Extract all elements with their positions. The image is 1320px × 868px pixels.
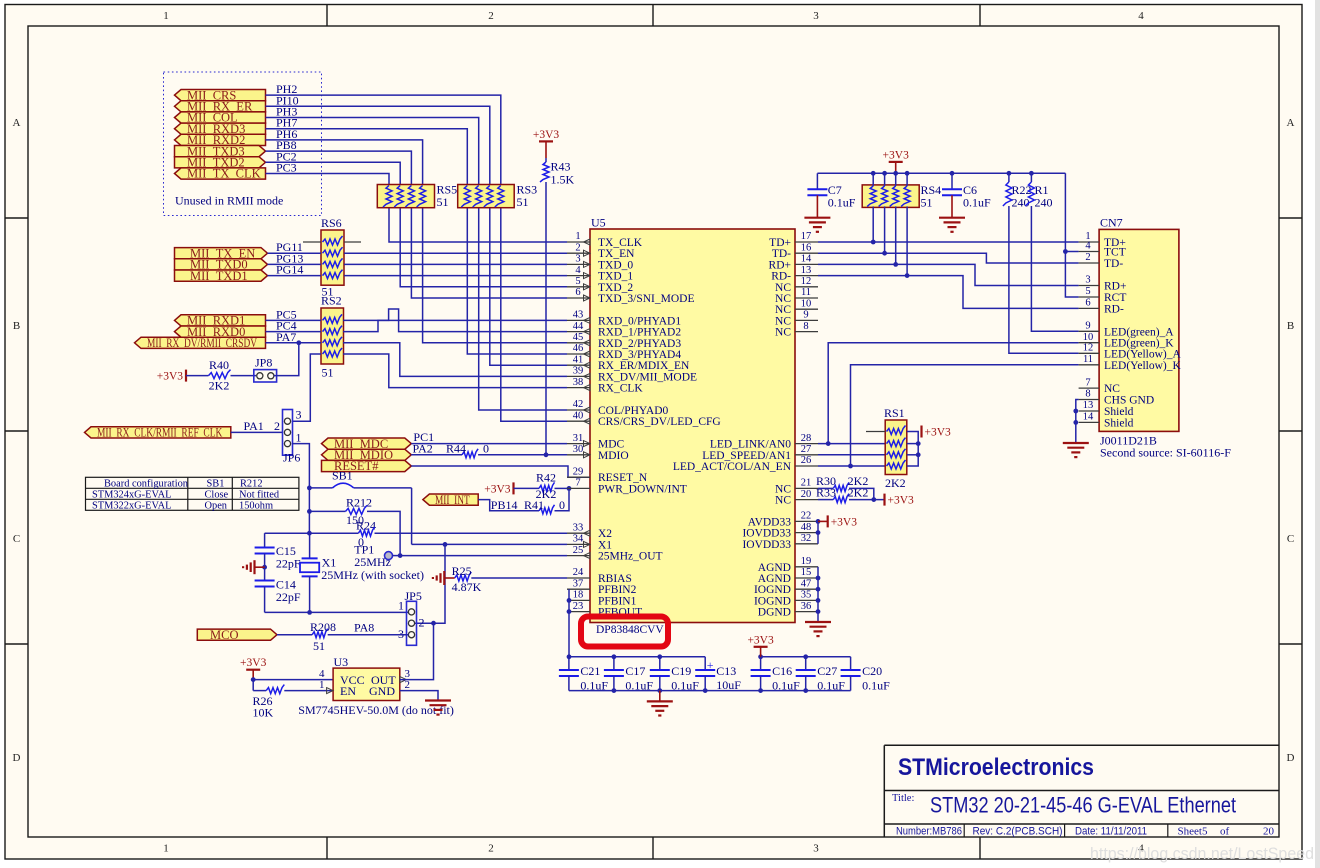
CN7 pin 11 LED(Yellow)_K	[1079, 364, 1100, 366]
pin 20 NC	[795, 499, 818, 501]
wire VCC	[253, 679, 333, 681]
wire RS1 common to +3V3	[907, 432, 918, 467]
port flag MII_TXD3	[175, 146, 266, 157]
wire RXD_0 (RS2 to pin 43)	[343, 320, 389, 331]
port flag RESET#	[322, 460, 412, 471]
svg-text:B: B	[13, 320, 20, 332]
svg-text:B: B	[1287, 320, 1294, 332]
svg-text:RD+: RD+	[1104, 281, 1126, 293]
wire cap bank top bus (left)	[569, 656, 705, 658]
port flag MII_MDC	[322, 438, 412, 449]
svg-text:JP8: JP8	[255, 356, 272, 370]
junction TP1	[398, 553, 403, 558]
svg-text:CRS/CRS_DV/LED_CFG: CRS/CRS_DV/LED_CFG	[598, 416, 721, 428]
pin 29 RESET_N	[567, 476, 590, 478]
svg-text:TD+: TD+	[769, 237, 791, 249]
svg-text:47: 47	[801, 578, 812, 589]
resistor R42 2K2	[514, 487, 540, 489]
svg-text:1: 1	[319, 679, 325, 691]
svg-text:1: 1	[296, 431, 302, 445]
svg-text:Number:MB786: Number:MB786	[896, 826, 962, 838]
svg-text:MDC: MDC	[598, 439, 625, 451]
title block	[884, 744, 1279, 746]
power +3V3 (RS1)	[920, 426, 922, 438]
svg-text:DGND: DGND	[758, 607, 791, 619]
wire MII_INT/PB14	[478, 500, 539, 511]
svg-text:9: 9	[1085, 321, 1090, 332]
svg-text:11: 11	[1083, 354, 1093, 365]
CN7 pin 1 TD+	[1079, 241, 1100, 243]
pin 44 RXD_1/PHYAD2	[567, 331, 590, 333]
wire PA7	[266, 342, 322, 344]
RS1 spare row stub	[866, 431, 885, 433]
svg-text:Unused in RMII mode: Unused in RMII mode	[175, 194, 283, 208]
wire AGND/IOGND/DGND to ground	[817, 567, 819, 622]
wire net PH7/RXD3	[266, 129, 568, 354]
svg-text:D: D	[13, 752, 21, 764]
wire cap bank bottom bus	[569, 690, 851, 692]
pin 12 NC	[795, 286, 818, 288]
header JP6	[283, 410, 293, 456]
svg-text:25: 25	[573, 545, 584, 556]
pin 11 NC	[795, 297, 818, 299]
wires RS4 to TD/RD lines	[872, 206, 874, 242]
svg-text:0.1uF: 0.1uF	[580, 679, 608, 693]
svg-text:17: 17	[801, 231, 812, 242]
svg-text:2: 2	[575, 242, 580, 253]
svg-text:1: 1	[575, 231, 580, 242]
svg-text:TXD_3/SNI_MODE: TXD_3/SNI_MODE	[598, 293, 694, 305]
wire RESET# to pin 29	[411, 466, 590, 477]
svg-text:TD-: TD-	[772, 248, 791, 260]
svg-text:NC: NC	[775, 495, 791, 507]
svg-text:PA8: PA8	[354, 621, 374, 635]
connector CN7	[1099, 229, 1179, 431]
capacitor C15 22pF	[264, 533, 266, 547]
svg-text:46: 46	[573, 343, 584, 354]
svg-text:PA2: PA2	[413, 441, 433, 455]
svg-text:NC: NC	[775, 304, 791, 316]
svg-text:Sheet5: Sheet5	[1178, 826, 1208, 838]
wire net PC3/TX_CLK	[266, 174, 568, 243]
svg-text:+3V3: +3V3	[240, 657, 267, 669]
header JP5	[407, 601, 417, 645]
svg-text:SB1: SB1	[332, 469, 353, 483]
svg-text:D: D	[1287, 752, 1295, 764]
svg-text:STM32 20-21-45-46 G-EVAL Ether: STM32 20-21-45-46 G-EVAL Ethernet	[930, 793, 1236, 818]
svg-text:2: 2	[1085, 252, 1090, 263]
svg-text:3: 3	[405, 668, 411, 680]
pin 8 NC	[795, 331, 818, 333]
svg-text:Close: Close	[205, 489, 229, 500]
svg-text:2K2: 2K2	[209, 379, 230, 393]
svg-text:15: 15	[801, 567, 812, 578]
svg-text:8: 8	[1085, 389, 1090, 400]
power +3V3 (R40)	[185, 370, 187, 382]
right edge gray strip	[1315, 0, 1320, 868]
svg-text:13: 13	[1083, 400, 1094, 411]
svg-text:19: 19	[801, 556, 812, 567]
svg-text:CN7: CN7	[1100, 216, 1123, 230]
capacitor C14 22pF	[255, 580, 275, 582]
svg-text:44: 44	[573, 321, 584, 332]
svg-text:24: 24	[573, 567, 584, 578]
svg-text:3: 3	[575, 254, 580, 265]
CN7 pin 3 RD+	[1079, 285, 1100, 287]
wire PC4	[266, 331, 322, 333]
wire LED(Yellow)_K	[851, 365, 1079, 466]
wire LED(green)_K	[828, 343, 1078, 444]
wire RX_CLK branch (RS2 row4 to pin 38)	[343, 354, 567, 388]
svg-text:8: 8	[803, 321, 808, 332]
svg-text:MII_INT: MII_INT	[435, 493, 470, 507]
svg-text:https://blog.csdn.net/LostSpee: https://blog.csdn.net/LostSpeed	[1090, 845, 1314, 863]
resistor network RS4	[862, 185, 919, 208]
wire R22 to LED(Yellow)_A	[1009, 206, 1079, 353]
wire R212 right to TP1/25MHz net	[367, 511, 400, 555]
svg-text:39: 39	[573, 366, 584, 377]
svg-text:PFBIN2: PFBIN2	[598, 584, 637, 596]
svg-text:43: 43	[573, 310, 584, 321]
pin 24 RBIAS	[567, 577, 590, 579]
pin 46 RXD_3/PHYAD4	[567, 353, 590, 355]
power +3V3 (R30/R33)	[883, 494, 885, 506]
CN7 pin 8 CHS GND	[1079, 399, 1100, 401]
wire R44 to pin 30	[478, 454, 567, 456]
resistor R22 240	[1008, 173, 1010, 182]
wire TD-	[818, 253, 1079, 263]
svg-text:C: C	[1287, 533, 1294, 545]
CN7 pin 13 Shield	[1079, 410, 1100, 412]
svg-text:LED(green)_A: LED(green)_A	[1104, 326, 1174, 338]
resistor R25 4.87K	[455, 572, 472, 581]
svg-text:25MHz_OUT: 25MHz_OUT	[598, 551, 663, 563]
svg-text:Title:: Title:	[892, 793, 914, 804]
svg-text:25MHz (with socket): 25MHz (with socket)	[321, 568, 424, 582]
CN7 pin 6 RD-	[1079, 307, 1100, 309]
pin 32 IOVDD33	[795, 543, 818, 545]
pin 28 LED_LINK/AN0	[795, 443, 818, 445]
svg-text:+3V3: +3V3	[831, 516, 858, 528]
svg-text:35: 35	[801, 590, 812, 601]
svg-text:RX_CLK: RX_CLK	[598, 383, 643, 395]
svg-text:10K: 10K	[253, 706, 274, 720]
svg-text:0: 0	[483, 441, 489, 455]
svg-text:2: 2	[274, 419, 280, 433]
svg-text:RXD_1/PHYAD2: RXD_1/PHYAD2	[598, 327, 681, 339]
port flag MII_TXD0	[175, 259, 268, 270]
wire JP6 pin1 down to SB1 net	[292, 444, 309, 534]
svg-text:9: 9	[803, 310, 808, 321]
svg-text:TCT: TCT	[1104, 247, 1126, 259]
capacitor C13 10uF	[704, 657, 706, 670]
svg-text:R42: R42	[536, 471, 556, 485]
svg-text:14: 14	[801, 254, 812, 265]
pin 2 TX_EN	[567, 252, 590, 254]
port flag MII_CRS	[175, 90, 266, 101]
svg-text:4: 4	[319, 668, 325, 680]
svg-text:RS6: RS6	[321, 216, 342, 230]
svg-text:A: A	[1287, 117, 1295, 129]
resistor R44 0	[462, 449, 478, 458]
svg-text:C: C	[13, 533, 20, 545]
pin 26 LED_ACT/COL/AN_EN	[795, 465, 818, 467]
pin 14 RD+	[795, 263, 818, 265]
svg-text:C27: C27	[817, 664, 837, 678]
port flag MII_RXD1	[175, 315, 266, 326]
wire PA1 to JP6	[231, 431, 283, 433]
svg-text:MCO: MCO	[210, 628, 238, 642]
junction crystal bottom	[307, 610, 312, 615]
pin 34 X1	[567, 543, 590, 545]
pin 41 RX_ER/MDIX_EN	[567, 364, 590, 366]
CN7 pin 2 TD-	[1079, 262, 1100, 264]
pin 5 TXD_2	[567, 286, 590, 288]
svg-text:MII_RX_DV/RMII_CRSDV: MII_RX_DV/RMII_CRSDV	[147, 336, 257, 350]
wire net PH3/COL	[266, 118, 568, 411]
svg-text:TD-: TD-	[1104, 258, 1123, 270]
svg-text:10: 10	[801, 298, 812, 309]
svg-text:LED(Yellow)_K: LED(Yellow)_K	[1104, 360, 1181, 372]
svg-text:2K2: 2K2	[885, 476, 906, 490]
pin 27 LED_SPEED/AN1	[795, 454, 818, 456]
svg-text:RS2: RS2	[321, 294, 342, 308]
svg-text:0.1uF: 0.1uF	[772, 679, 800, 693]
svg-text:30: 30	[573, 444, 584, 455]
pin 40 CRS/CRS_DV/LED_CFG	[567, 420, 590, 422]
wire R41 up to pin 7	[555, 488, 570, 510]
svg-text:27: 27	[801, 444, 812, 455]
svg-text:18: 18	[573, 590, 584, 601]
svg-text:TXD_1: TXD_1	[598, 271, 633, 283]
pin 45 RXD_2/PHYAD3	[567, 342, 590, 344]
svg-text:RCT: RCT	[1104, 292, 1126, 304]
svg-text:5: 5	[1085, 286, 1090, 297]
pin 42 COL/PHYAD0	[567, 409, 590, 411]
svg-text:STM324xG-EVAL: STM324xG-EVAL	[92, 489, 171, 500]
svg-text:MII_RX_CLK/RMII_REF_CLK: MII_RX_CLK/RMII_REF_CLK	[97, 426, 222, 440]
svg-text:C17: C17	[625, 664, 645, 678]
CN7 pin 9 LED(green)_A	[1079, 330, 1100, 332]
svg-text:A: A	[13, 117, 21, 129]
pin 31 MDC	[567, 443, 590, 445]
wire PG11	[268, 252, 322, 254]
svg-text:+3V3: +3V3	[484, 483, 511, 495]
ground (C7)	[804, 217, 830, 219]
svg-text:20: 20	[801, 489, 812, 500]
port flag MII_TXD2	[175, 157, 266, 168]
svg-text:16: 16	[801, 242, 812, 253]
svg-text:+3V3: +3V3	[157, 371, 184, 383]
port flag MII_RXD3	[175, 123, 266, 134]
svg-text:32: 32	[801, 533, 812, 544]
svg-text:240: 240	[1035, 196, 1053, 210]
wire 25MHz_OUT to pin 25	[400, 555, 567, 557]
svg-text:TX_CLK: TX_CLK	[598, 237, 643, 249]
svg-text:45: 45	[573, 332, 584, 343]
RS6 unused row stubs	[303, 241, 321, 243]
wire TD+	[818, 241, 1079, 243]
svg-text:41: 41	[573, 354, 584, 365]
wire CHS GND/Shield to ground	[1076, 400, 1079, 444]
pin 3 TXD_0	[567, 263, 590, 265]
CN7 pin 4 TCT	[1079, 251, 1100, 253]
svg-text:1: 1	[163, 843, 169, 855]
pin 47 IOGND	[795, 588, 818, 590]
svg-text:LED(Yellow)_A: LED(Yellow)_A	[1104, 348, 1181, 360]
svg-text:RBIAS: RBIAS	[598, 573, 632, 585]
wire MDIO	[411, 454, 462, 456]
wire X1 net to pin 34	[412, 543, 567, 545]
pin 36 DGND	[795, 611, 818, 613]
pin 16 TD-	[795, 252, 818, 254]
svg-text:AGND: AGND	[758, 562, 791, 574]
port flag MII_RXD0	[175, 326, 266, 337]
capacitor C7 0.1uF	[816, 173, 818, 189]
wire R25 to RBIAS pin 24	[471, 577, 567, 579]
svg-text:21: 21	[801, 478, 812, 489]
svg-text:AGND: AGND	[758, 573, 791, 585]
svg-text:IOVDD33: IOVDD33	[742, 528, 791, 540]
svg-text:RXD_0/PHYAD1: RXD_0/PHYAD1	[598, 315, 681, 327]
pin 1 TX_CLK	[567, 241, 590, 243]
resistor R26 10K	[252, 680, 254, 691]
capacitor C27 0.1uF	[805, 657, 807, 670]
wire LED_SPEED pin27	[818, 454, 885, 456]
svg-text:38: 38	[573, 377, 584, 388]
pin 15 AGND	[795, 577, 818, 579]
svg-text:7: 7	[575, 478, 580, 489]
svg-text:3: 3	[296, 408, 302, 422]
svg-text:RD+: RD+	[769, 259, 791, 271]
wire SB1 right down to X1 net	[411, 488, 413, 545]
svg-text:7: 7	[1085, 377, 1090, 388]
port flag MII_RXD2	[175, 134, 266, 145]
pin 4 TXD_1	[567, 275, 590, 277]
svg-text:X2: X2	[598, 528, 612, 540]
pin 9 NC	[795, 319, 818, 321]
svg-text:R33: R33	[816, 486, 836, 500]
wire bus to TCT/RCT	[1065, 173, 1078, 297]
board configuration table	[86, 477, 299, 510]
svg-text:CHS GND: CHS GND	[1104, 395, 1154, 407]
svg-text:240: 240	[1012, 196, 1030, 210]
wire R40-JP8	[231, 375, 257, 377]
pin 19 AGND	[795, 566, 818, 568]
svg-text:PFBIN1: PFBIN1	[598, 595, 637, 607]
svg-text:42: 42	[573, 399, 584, 410]
svg-text:33: 33	[573, 522, 584, 533]
svg-text:3: 3	[813, 10, 819, 22]
pin 38 RX_CLK	[567, 387, 590, 389]
capacitor C21 0.1uF	[568, 657, 570, 670]
svg-text:TXD_2: TXD_2	[598, 282, 633, 294]
wire PC5	[266, 319, 322, 321]
svg-text:12: 12	[1083, 343, 1094, 354]
wire AVDD/IOVDD to +3V3	[817, 521, 819, 543]
svg-text:EN: EN	[340, 684, 356, 698]
svg-text:R212: R212	[240, 478, 263, 489]
svg-text:X1: X1	[598, 539, 612, 551]
power +3V3 (VDD pins)	[827, 515, 829, 527]
svg-text:2: 2	[488, 10, 494, 22]
wire JP6 pin3 to RS2 row4	[292, 354, 321, 421]
svg-text:3: 3	[1085, 275, 1090, 286]
port flag MCO	[197, 629, 277, 640]
svg-text:SB1: SB1	[207, 478, 225, 489]
wire RXD_1 (RS2 to pin 44)	[343, 309, 567, 332]
port flag MII_RX_DV/RMII_CRSDV	[135, 337, 266, 348]
capacitor C16 0.1uF	[760, 657, 762, 670]
wire LED_ACT pin26	[818, 465, 885, 467]
svg-text:+: +	[707, 658, 714, 672]
wire cap bank top bus (right, +3V3)	[761, 656, 851, 658]
pin 30 MDIO	[567, 454, 590, 456]
svg-text:2: 2	[405, 679, 411, 691]
wire PG13	[268, 263, 322, 265]
svg-text:RXD_2/PHYAD3: RXD_2/PHYAD3	[598, 338, 681, 350]
svg-text:IOGND: IOGND	[754, 595, 791, 607]
resistor network RS3	[458, 185, 515, 208]
junction C15/C14/AGND	[262, 565, 267, 570]
pin 48 IOVDD33	[795, 532, 818, 534]
svg-text:0.1uF: 0.1uF	[625, 679, 653, 693]
wire LED_LINK pin28	[818, 443, 885, 445]
svg-text:+3V3: +3V3	[925, 427, 952, 439]
resistor R43 1.5K pull-up on MDIO	[545, 158, 547, 162]
CN7 pin 10 LED(green)_K	[1079, 342, 1100, 344]
svg-text:RESET_N: RESET_N	[598, 472, 648, 484]
resistor network RS1	[885, 420, 907, 475]
svg-text:14: 14	[1083, 412, 1094, 423]
wire R26 to EN	[284, 690, 333, 692]
svg-text:R40: R40	[209, 358, 229, 372]
capacitor C19 0.1uF	[659, 657, 661, 670]
svg-text:20: 20	[1263, 826, 1275, 838]
svg-text:Not fitted: Not fitted	[239, 489, 280, 500]
pin 7 PWR_DOWN/INT	[567, 487, 590, 489]
CN7 pin 12 LED(Yellow)_A	[1079, 352, 1100, 354]
svg-text:0.1uF: 0.1uF	[817, 679, 845, 693]
svg-text:4: 4	[1085, 241, 1091, 252]
svg-text:11: 11	[801, 287, 811, 298]
svg-text:31: 31	[573, 433, 584, 444]
oscillator U3	[333, 668, 400, 700]
svg-text:0.1uF: 0.1uF	[963, 196, 991, 210]
port flag MII_RX_CLK/RMII_REF_CLK	[85, 427, 231, 438]
port flag MII_INT	[423, 494, 478, 505]
resistor R1 240	[1030, 173, 1032, 182]
svg-text:STM322xG-EVAL: STM322xG-EVAL	[92, 500, 171, 511]
svg-text:0.1uF: 0.1uF	[828, 196, 856, 210]
svg-text:NC: NC	[775, 315, 791, 327]
junction +3V3/R26	[251, 677, 256, 682]
wire PA8 to JP5 pin 3	[328, 634, 409, 636]
junction MDIO/R43	[544, 452, 549, 457]
svg-text:R208: R208	[310, 620, 336, 634]
pin 39 RX_DV/MII_MODE	[567, 375, 590, 377]
svg-text:6: 6	[1085, 298, 1090, 309]
svg-text:COL/PHYAD0: COL/PHYAD0	[598, 405, 669, 417]
svg-text:5: 5	[575, 276, 580, 287]
svg-text:NC: NC	[775, 293, 791, 305]
svg-text:LED_ACT/COL/AN_EN: LED_ACT/COL/AN_EN	[673, 461, 792, 473]
svg-text:4: 4	[575, 265, 581, 276]
svg-text:12: 12	[801, 276, 812, 287]
pin 17 TD+	[795, 241, 818, 243]
pin 23 PFBOUT	[567, 611, 590, 613]
wire PG14	[268, 275, 322, 277]
